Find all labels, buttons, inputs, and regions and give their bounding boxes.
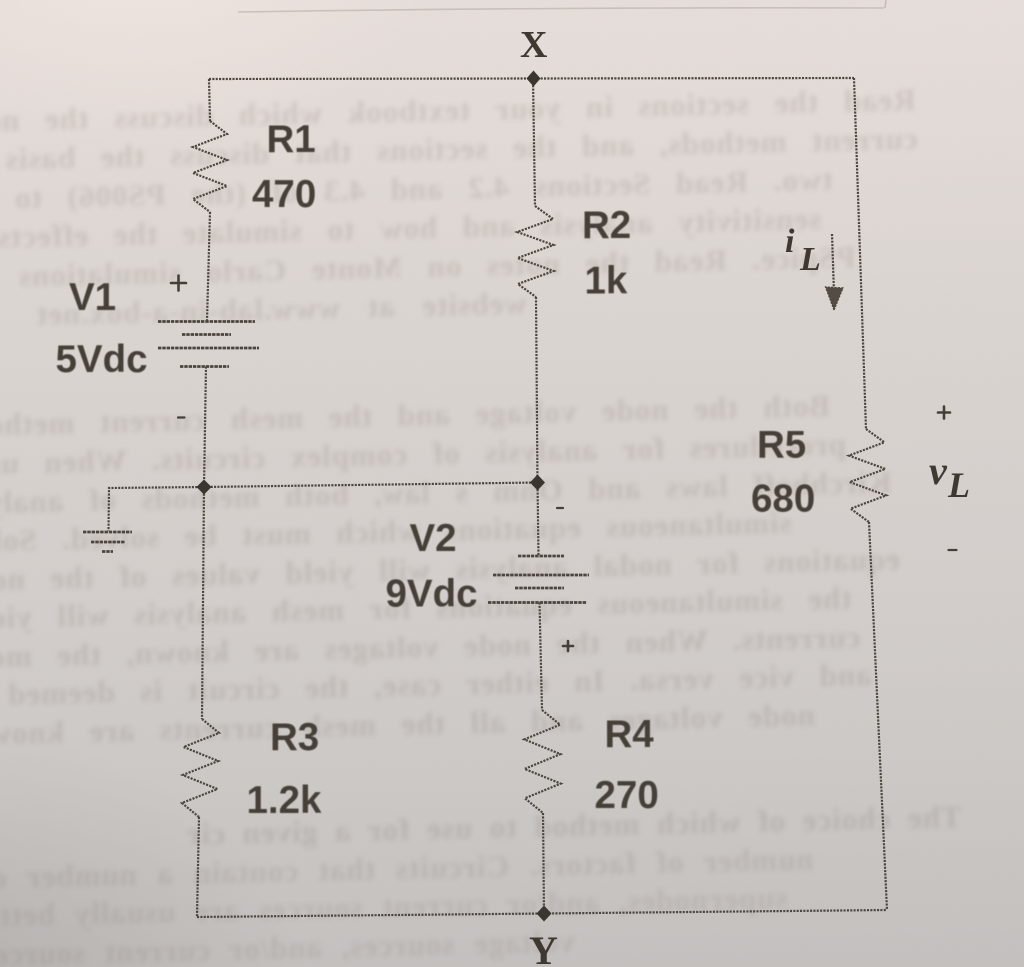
resistor R3 1.2k	[182, 719, 219, 817]
ground symbol 0	[83, 532, 132, 552]
svg-text:R4: R4	[605, 713, 655, 756]
svg-text:v: v	[929, 448, 948, 493]
middle junction dot	[530, 475, 545, 491]
wire: R3 to bottom bus	[197, 817, 199, 917]
V2 plus sign	[563, 645, 573, 648]
faint rule from page above	[238, 0, 886, 12]
V2 minus sign	[557, 507, 563, 509]
wire: left junction to R3	[202, 487, 204, 719]
wire: left branch upper (top bus to R1)	[209, 79, 210, 121]
node Y junction dot	[537, 906, 552, 922]
wire: bottom bus Y	[197, 910, 887, 917]
vL plus sign	[938, 411, 950, 414]
resistor R1 470	[193, 121, 227, 212]
wire: ground stub	[109, 487, 205, 531]
svg-text:470: 470	[252, 173, 316, 216]
wire: middle branch X to R2	[533, 79, 535, 207]
V1 minus sign	[178, 416, 185, 418]
svg-text:Y: Y	[529, 928, 558, 967]
wire: R2 to middle junction	[536, 297, 538, 483]
wire: R4 to node Y	[543, 813, 544, 913]
V1 plus sign	[171, 282, 186, 285]
wire: V1 to left junction	[204, 367, 206, 488]
wire: R5 to bottom bus	[869, 522, 887, 910]
svg-text:V1: V1	[69, 276, 116, 319]
wire: middle junction to V2	[538, 483, 539, 557]
vL minus sign	[949, 549, 957, 551]
left junction dot	[197, 480, 212, 495]
resistor R5 680	[849, 429, 886, 522]
wire: top bus X	[209, 78, 854, 79]
wire: R1 to V1	[207, 212, 210, 321]
svg-text:R5: R5	[757, 424, 806, 467]
svg-text:5Vdc: 5Vdc	[56, 338, 148, 381]
wire: middle horizontal (left junction to middle junction)	[204, 483, 538, 488]
svg-text:X: X	[520, 24, 547, 66]
svg-text:1k: 1k	[585, 260, 628, 303]
svg-text:1.2k: 1.2k	[247, 779, 323, 822]
wire: V2 to R4	[540, 603, 543, 711]
svg-text:R1: R1	[267, 118, 316, 161]
svg-text:i: i	[785, 223, 795, 260]
resistor R2 1k	[517, 206, 553, 297]
svg-text:9Vdc: 9Vdc	[386, 573, 478, 616]
svg-text:L: L	[947, 465, 970, 505]
svg-text:R2: R2	[582, 204, 631, 247]
svg-text:270: 270	[595, 774, 659, 817]
node X junction dot	[527, 71, 541, 87]
svg-text:V2: V2	[410, 517, 457, 560]
svg-text:L: L	[799, 241, 821, 278]
svg-text:R3: R3	[270, 716, 319, 759]
battery V1 5Vdc	[158, 322, 259, 367]
current arrow iL	[832, 234, 834, 293]
battery V2 9Vdc	[488, 556, 589, 603]
wire: right branch upper (top bus to R5)	[854, 78, 866, 429]
resistor R4 270	[524, 710, 560, 813]
svg-text:680: 680	[751, 478, 815, 521]
